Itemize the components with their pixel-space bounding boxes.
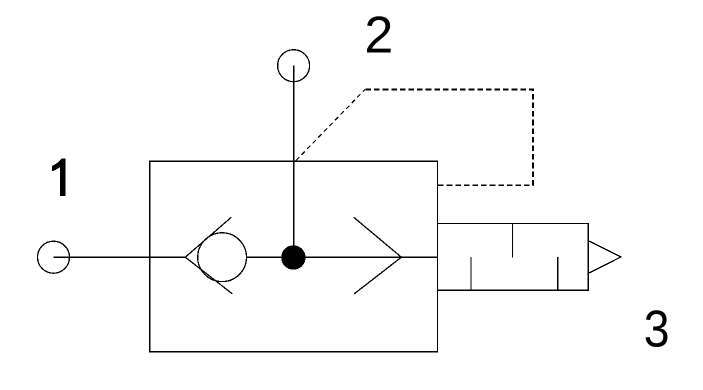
wire port 2 pilot vertical <box>293 66 295 258</box>
port 1 terminal circle <box>38 241 70 273</box>
port 2 terminal circle <box>278 50 310 82</box>
svg-text:2: 2 <box>364 6 393 64</box>
flow arrow <box>354 217 402 294</box>
check valve circle <box>198 233 247 282</box>
silencer rectangle <box>438 224 589 291</box>
silencer baffle bottom left <box>470 257 472 290</box>
wire check valve to outlet <box>247 256 438 258</box>
label 1 <box>52 159 66 196</box>
pilot dashed line loop <box>366 89 534 185</box>
check valve seat <box>185 217 232 294</box>
svg-text:3: 3 <box>644 301 670 359</box>
silencer baffle bottom right <box>557 257 559 290</box>
valve body rectangle <box>150 161 438 352</box>
silencer exhaust cone <box>589 241 621 273</box>
silencer baffle top <box>511 224 513 258</box>
pilot dashed line diagonal <box>296 89 365 160</box>
wire port 1 to check valve seat <box>54 256 186 258</box>
junction dot node <box>281 245 305 269</box>
